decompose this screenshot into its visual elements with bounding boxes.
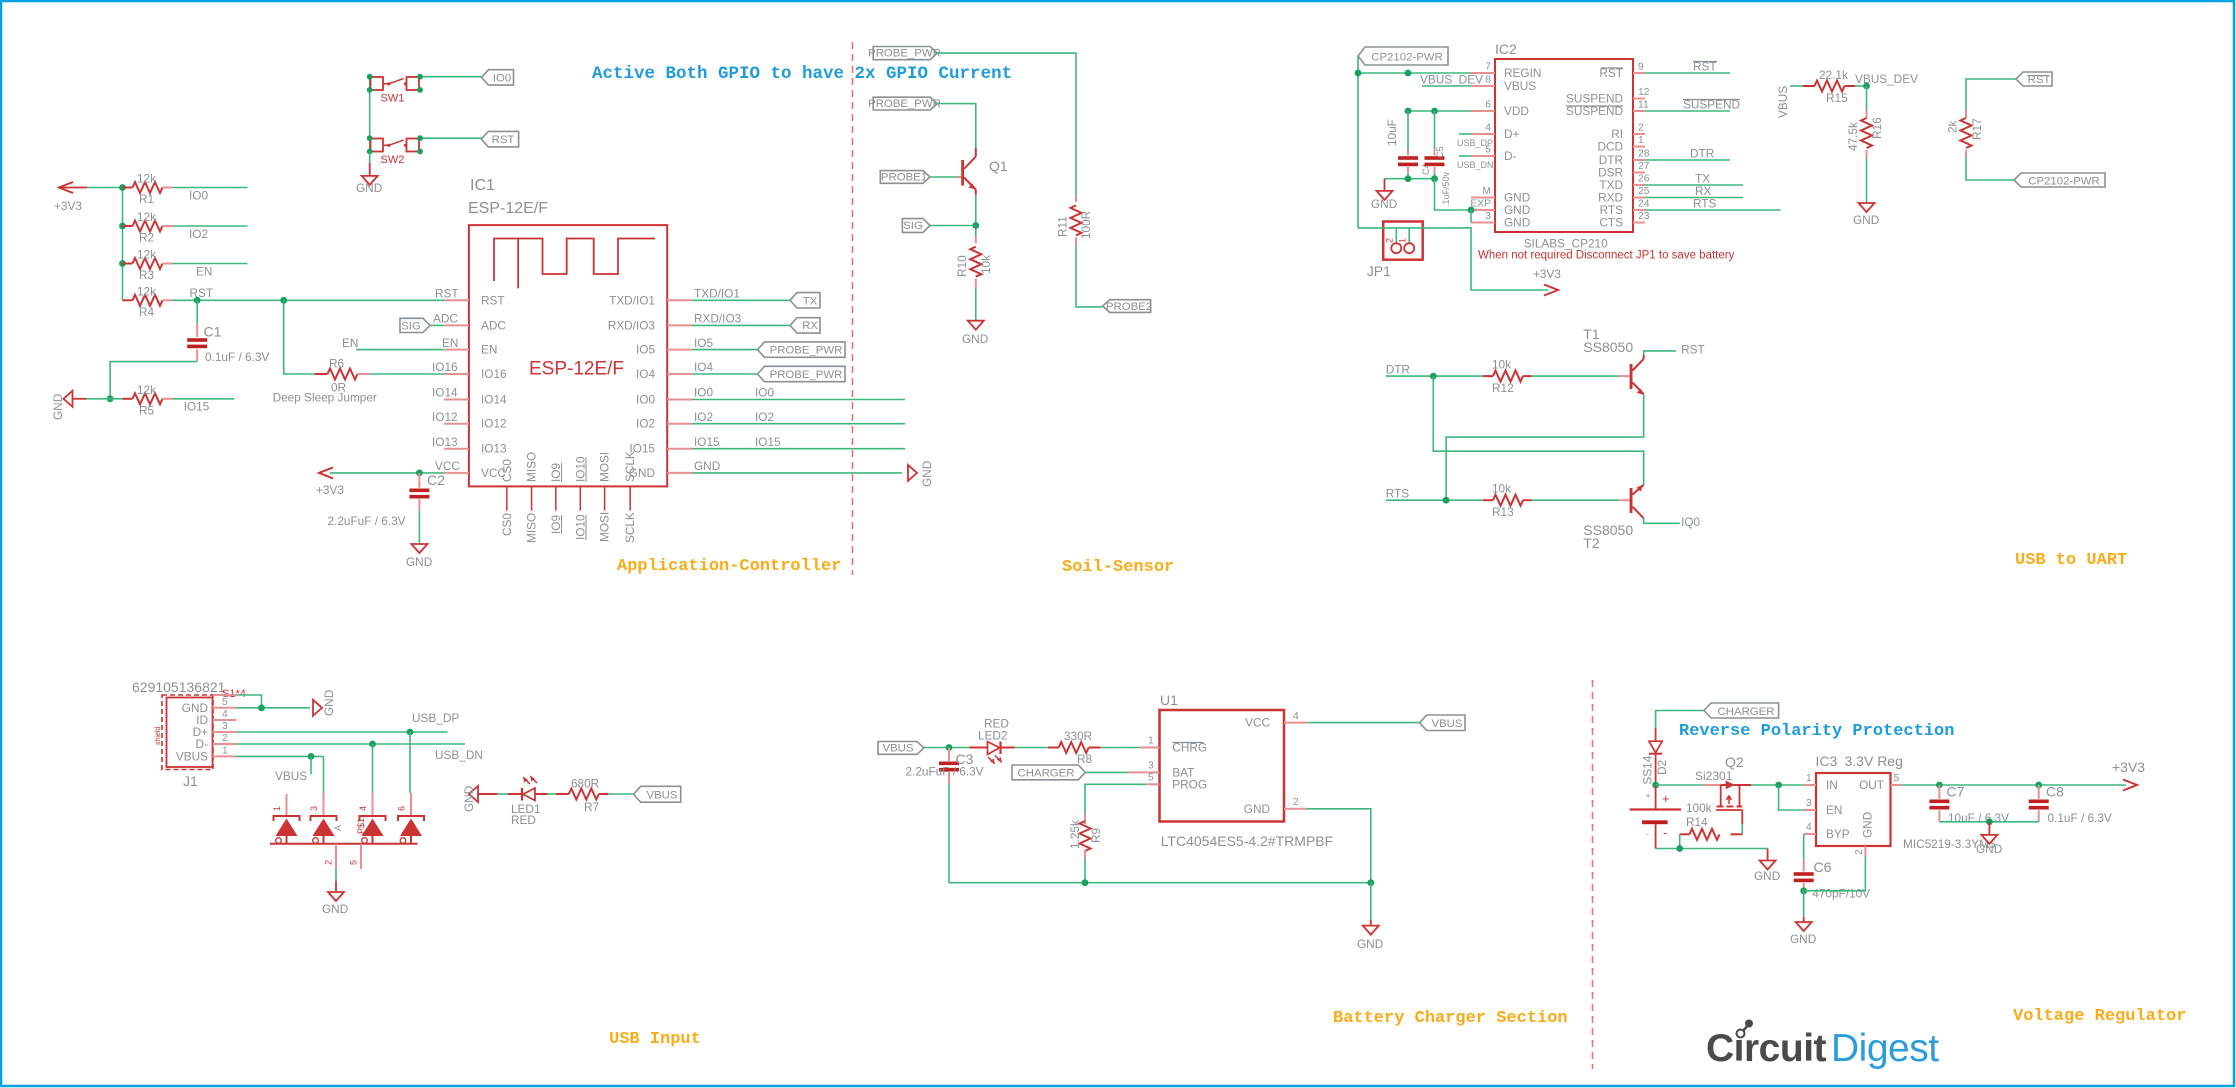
svg-text:VBUS: VBUS	[882, 743, 913, 755]
svg-text:ADC: ADC	[481, 318, 506, 332]
power +3V3 output	[2112, 759, 2145, 791]
ground below C6	[1790, 917, 1816, 946]
svg-text:PROBE_PWR: PROBE_PWR	[770, 345, 843, 357]
wire PROG pin to R9	[1085, 784, 1146, 814]
svg-text:BYP: BYP	[1826, 827, 1850, 841]
diode D1	[272, 806, 300, 844]
svg-text:Reverse Polarity Protection: Reverse Polarity Protection	[1679, 722, 1954, 741]
wire PROBE_PWR to R11	[937, 53, 1076, 195]
IC U1 LTC4054 body	[1160, 710, 1285, 822]
svg-text:+3V3: +3V3	[1533, 267, 1561, 281]
wire R14 to bottom rail	[1679, 834, 1681, 848]
wire SW1-SW2 left vertical	[369, 77, 371, 152]
wire D+ to diode 6	[409, 732, 411, 793]
resistor R10 10k	[955, 237, 993, 288]
wire C6 to GND pin2	[1804, 857, 1866, 891]
wire C5 rail to EXP	[1435, 179, 1472, 210]
svg-text:RST: RST	[435, 287, 459, 301]
svg-text:DTR: DTR	[1386, 363, 1410, 377]
pin VDD 6	[1408, 100, 1529, 119]
svg-text:C7: C7	[1947, 784, 1965, 800]
svg-text:27: 27	[1638, 161, 1650, 172]
svg-text:R17: R17	[1970, 118, 1984, 140]
svg-text:3.3V Reg: 3.3V Reg	[1845, 753, 1903, 769]
svg-text:5: 5	[349, 860, 359, 865]
pin REGIN 7	[1471, 62, 1541, 81]
svg-text:IO16: IO16	[481, 367, 507, 381]
connector JP1	[1367, 222, 1423, 280]
svg-text:VBUS: VBUS	[176, 749, 208, 763]
svg-text:SILABS_CP210: SILABS_CP210	[1524, 237, 1608, 251]
SECTION: battery charger	[878, 692, 1465, 951]
pin TXD 26	[1599, 172, 1743, 193]
svg-text:24: 24	[1638, 199, 1650, 210]
node gnd rail junction	[1986, 818, 1993, 825]
wire VBUS to LED2	[924, 747, 970, 749]
svg-text:GND: GND	[322, 690, 336, 716]
svg-text:IO0: IO0	[493, 73, 511, 85]
svg-text:R2: R2	[139, 231, 154, 245]
svg-text:RED: RED	[511, 813, 536, 827]
node D- junction	[369, 741, 376, 748]
svg-text:+: +	[1646, 791, 1651, 801]
svg-text:3: 3	[1806, 798, 1812, 809]
SECTION: soil sensor	[868, 47, 1152, 347]
wire SW2 right to RST tag	[420, 137, 481, 139]
svg-text:D2: D2	[1655, 760, 1669, 775]
svg-text:0.1uF / 6.3V: 0.1uF / 6.3V	[2048, 811, 2112, 825]
svg-text:SS8050: SS8050	[1583, 339, 1633, 355]
node C6 junction	[1800, 887, 1807, 894]
pin IN 1	[1804, 773, 1838, 792]
wire IO15 right	[692, 448, 905, 450]
pin CS0 bottom	[500, 459, 514, 536]
svg-text:When not required Disconnect J: When not required Disconnect JP1 to save…	[1478, 250, 1735, 262]
wire C6 to GND	[1803, 891, 1805, 917]
battery B1	[1630, 785, 1681, 849]
switch SW1	[367, 74, 423, 105]
svg-text:Deep Sleep Jumper: Deep Sleep Jumper	[273, 391, 377, 405]
svg-text:+3V3: +3V3	[2112, 759, 2145, 775]
svg-text:IN: IN	[1826, 778, 1838, 792]
ground right of J1	[313, 690, 336, 716]
transistor T2 SS8050	[1619, 484, 1643, 518]
wire +3V3 to bus	[87, 187, 123, 189]
wire vertical 3V3 bus	[122, 188, 124, 301]
svg-text:GND: GND	[1861, 812, 1875, 838]
wire SW1 right to IO0 tag	[420, 76, 482, 78]
node RST R6 junction	[280, 297, 287, 304]
node junction C4 column	[1405, 70, 1412, 77]
pin RXD 25	[1598, 184, 1743, 205]
svg-text:IO14: IO14	[432, 386, 458, 400]
ground left of LED1	[462, 786, 478, 812]
pin IO15 right	[629, 435, 720, 456]
svg-text:0.1uF / 6.3V: 0.1uF / 6.3V	[205, 350, 269, 364]
svg-text:10uF: 10uF	[1385, 119, 1399, 146]
node C4 bottom	[1405, 175, 1412, 182]
wire D+ row USB_DP	[237, 731, 448, 733]
SECTION: resistor ladder	[51, 172, 444, 421]
resistor R5 12k	[123, 383, 173, 418]
wire T1 emitter cross to RTS row	[1446, 394, 1644, 500]
svg-text:CHARGER: CHARGER	[1718, 706, 1775, 718]
transistor T1 SS8050	[1619, 355, 1644, 395]
pin SUSPEND 12	[1566, 87, 1650, 106]
wire R2 to IO2	[173, 225, 248, 227]
svg-text:GND: GND	[1371, 197, 1397, 211]
svg-text:2: 2	[1638, 123, 1644, 134]
wire ground rail	[949, 882, 1371, 884]
svg-text:C8: C8	[2046, 784, 2064, 800]
svg-text:IO5: IO5	[636, 343, 655, 357]
pin GND 2 bottom	[1854, 812, 1875, 857]
wire RTS row	[1386, 499, 1483, 501]
svg-text:P$1: P$1	[356, 818, 366, 834]
pin GND EXP	[1470, 199, 1530, 218]
op-amp module body IC1	[469, 225, 667, 486]
svg-text:Circuit: Circuit	[1706, 1027, 1827, 1070]
wire SW2 to GND	[369, 151, 371, 163]
pin SCLK bottom	[623, 451, 637, 543]
svg-text:R4: R4	[139, 305, 155, 319]
node VCC C2 junction	[416, 470, 423, 477]
svg-text:RX: RX	[802, 320, 818, 332]
svg-text:PROG: PROG	[1172, 777, 1207, 791]
svg-text:R7: R7	[584, 800, 599, 814]
wire OUT rail to +3V3	[1902, 784, 2126, 786]
node C3 junction	[946, 744, 953, 751]
svg-text:RST: RST	[1681, 343, 1705, 357]
svg-text:IO15: IO15	[755, 435, 781, 449]
svg-text:USB_DN: USB_DN	[1457, 160, 1494, 170]
wire CHARGER to D2	[1656, 711, 1704, 729]
svg-text:R5: R5	[139, 404, 155, 418]
resistor R14 100k	[1680, 801, 1743, 840]
ground below SW2	[356, 163, 382, 195]
svg-text:1: 1	[1398, 238, 1408, 243]
wire Q1 emitter down	[975, 195, 977, 238]
pin IO2 right	[636, 410, 713, 431]
svg-text:IO14: IO14	[481, 393, 507, 407]
wire C3 down to rail	[948, 784, 950, 883]
svg-text:2k: 2k	[1946, 120, 1960, 133]
svg-text:IC1: IC1	[470, 177, 495, 194]
wire RST row	[173, 299, 445, 301]
svg-text:28: 28	[1638, 149, 1650, 160]
svg-text:LED2: LED2	[978, 729, 1008, 743]
svg-text:USB_DN: USB_DN	[435, 748, 483, 762]
svg-text:IO13: IO13	[432, 435, 458, 449]
LED LED1	[478, 777, 548, 827]
node PROBE_PWR tag top	[868, 47, 941, 60]
pin OUT 5	[1859, 773, 1902, 792]
node VBUS tag right	[1420, 715, 1465, 731]
ground below rail	[1754, 849, 1780, 884]
svg-text:23: 23	[1638, 211, 1650, 222]
SECTION: T1 T2	[1386, 326, 1705, 551]
ground below diode array	[322, 892, 348, 916]
pin ID 4	[196, 709, 236, 727]
capacitor C1	[187, 323, 269, 364]
svg-text:VCC: VCC	[435, 459, 460, 473]
svg-text:C2: C2	[427, 472, 445, 488]
svg-text:TXD/IO1: TXD/IO1	[609, 293, 655, 307]
wire VCC row	[330, 472, 444, 474]
svg-text:GND: GND	[51, 394, 65, 420]
svg-text:IO9: IO9	[549, 515, 563, 534]
wire R5 to IO15	[173, 398, 235, 400]
svg-text:PROBE2: PROBE2	[1106, 301, 1152, 313]
svg-text:PROBE_PWR: PROBE_PWR	[770, 369, 843, 381]
svg-text:+3V3: +3V3	[316, 483, 344, 497]
wire R13 to T2 base	[1532, 499, 1620, 501]
node CP2102-PWR tag	[1358, 47, 1448, 65]
wire GND to R5	[87, 398, 123, 400]
svg-text:CHARGER: CHARGER	[1018, 767, 1075, 779]
svg-text:4: 4	[222, 709, 228, 720]
node EXP junction	[1468, 207, 1475, 214]
pin GND 2	[1244, 797, 1307, 816]
node RTS junction	[1443, 497, 1450, 504]
svg-text:R6: R6	[329, 357, 345, 371]
svg-text:C6: C6	[1814, 859, 1832, 875]
node D+ junction	[407, 729, 414, 736]
pin MOSI bottom	[598, 452, 612, 542]
svg-text:VCC: VCC	[1245, 716, 1270, 730]
pin VBUS 1	[176, 745, 237, 763]
svg-text:IO12: IO12	[481, 417, 507, 431]
wire R16 to GND	[1866, 158, 1868, 203]
node PROBE2 tag	[1103, 300, 1152, 314]
diode array common bus	[270, 843, 418, 845]
resistor R12 10k	[1483, 358, 1532, 396]
wire LED2 to R8	[1015, 747, 1049, 749]
pin BYP 4	[1804, 822, 1850, 841]
svg-text:3: 3	[1148, 760, 1154, 771]
svg-text:2: 2	[1385, 238, 1395, 243]
pin GND right	[629, 459, 720, 480]
svg-text:SCLK: SCLK	[623, 451, 637, 482]
svg-text:8: 8	[1485, 75, 1491, 86]
node rail junction	[1676, 845, 1683, 852]
svg-text:26: 26	[1638, 174, 1650, 185]
pin DTR 28	[1599, 147, 1730, 168]
svg-text:GND: GND	[462, 786, 476, 812]
svg-text:.1uF/50v: .1uF/50v	[1441, 171, 1451, 207]
svg-text:CS0: CS0	[500, 513, 514, 536]
svg-text:22.1k: 22.1k	[1819, 68, 1848, 82]
svg-text:IO0: IO0	[694, 386, 713, 400]
node PROBE_PWR tag second	[868, 97, 941, 110]
pin VCC 4	[1245, 711, 1307, 730]
svg-text:IO13: IO13	[481, 442, 507, 456]
node C7 junction	[1936, 782, 1943, 789]
node VDD junction C5	[1431, 108, 1438, 115]
pin GND 5	[182, 697, 237, 715]
svg-text:4: 4	[1293, 711, 1299, 722]
svg-text:RST: RST	[481, 293, 505, 307]
pin SUSPEND 11	[1566, 98, 1740, 119]
node SIG tag at ADC	[400, 318, 444, 332]
svg-text:R9: R9	[1089, 828, 1103, 843]
svg-text:shield: shield	[155, 727, 162, 745]
svg-text:GND: GND	[322, 902, 348, 916]
svg-text:D-: D-	[1504, 149, 1517, 163]
svg-text:J1: J1	[183, 773, 198, 789]
svg-text:JP1: JP1	[1367, 263, 1391, 279]
pin RST 9 right	[1599, 60, 1730, 81]
svg-text:IO15: IO15	[184, 400, 210, 414]
diode array pin 1 stub	[286, 794, 288, 815]
node C5 bottom	[1431, 175, 1438, 182]
capacitor C7 10uF	[1929, 784, 2009, 826]
svg-text:680R: 680R	[571, 777, 599, 791]
node CHARGER tag	[1012, 765, 1085, 780]
svg-text:R16: R16	[1870, 117, 1884, 139]
resistor R17 2k	[1946, 110, 1985, 158]
wire EXP to pin3	[1470, 210, 1472, 223]
svg-text:R11: R11	[1056, 216, 1070, 237]
svg-text:GND: GND	[1504, 216, 1530, 230]
node SIG tag	[902, 219, 930, 233]
svg-text:IC2: IC2	[1495, 41, 1517, 57]
svg-text:Q2: Q2	[1725, 754, 1744, 770]
svg-text:330R: 330R	[1064, 729, 1092, 743]
svg-text:11: 11	[1638, 100, 1649, 111]
svg-text:+: +	[1662, 791, 1670, 806]
svg-text:RST: RST	[492, 134, 515, 146]
pin D+ 4	[1457, 123, 1520, 149]
svg-text:CP2102-PWR: CP2102-PWR	[2028, 175, 2100, 187]
node GND5 junction	[258, 704, 265, 711]
wire T1 collector to RST	[1644, 351, 1676, 355]
node GND row junction	[107, 395, 114, 402]
node RST C1 junction	[194, 297, 201, 304]
svg-text:ESP-12E/F: ESP-12E/F	[468, 200, 548, 217]
svg-text:12k: 12k	[137, 172, 156, 186]
SECTION: divider resistors	[1776, 68, 2105, 227]
svg-text:R14: R14	[1686, 815, 1708, 829]
resistor R11 100R	[1056, 195, 1094, 246]
svg-text:GND: GND	[694, 459, 720, 473]
SECTION: ESP-12 IC1	[273, 177, 934, 569]
svg-text:SW1: SW1	[381, 93, 405, 105]
wire LED1 to R7	[548, 793, 556, 795]
wire caps bottom rail	[1385, 178, 1435, 180]
svg-text:Active Both GPIO to have 2x GP: Active Both GPIO to have 2x GPIO Current	[592, 64, 1012, 84]
svg-text:GND: GND	[1754, 869, 1780, 883]
svg-text:Battery Charger Section: Battery Charger Section	[1333, 1009, 1568, 1028]
svg-text:DCD: DCD	[1597, 140, 1623, 154]
node VBUS_DEV junction	[1863, 83, 1870, 90]
pin RXD/IO3 right	[608, 312, 742, 333]
wire REGIN row	[1358, 72, 1471, 74]
net label VBUS stub	[275, 756, 311, 783]
svg-text:M: M	[1482, 186, 1491, 197]
resistor R16 47.5k	[1846, 86, 1884, 158]
wire rail to Q2	[1656, 784, 1704, 786]
wire SIG to junction	[930, 225, 976, 227]
logo CircuitDigest	[1706, 1020, 1939, 1071]
svg-text:ADC: ADC	[433, 312, 458, 326]
node CHARGER tag	[1704, 703, 1779, 718]
wire R15 to junction	[1855, 85, 1867, 87]
pin CTS 23	[1599, 211, 1649, 230]
ground below charger	[1357, 920, 1383, 951]
svg-text:1: 1	[1638, 135, 1644, 146]
svg-text:VBUS_DEV: VBUS_DEV	[1855, 72, 1918, 86]
resistor R15 22.1k	[1803, 68, 1855, 105]
wire Q2 gate to R14	[1741, 824, 1743, 834]
svg-text:USB Input: USB Input	[609, 1030, 701, 1049]
svg-text:SIG: SIG	[401, 320, 421, 332]
wire JP1 row to +3V3	[1358, 228, 1548, 290]
resistor R4 12k	[123, 284, 173, 319]
resistor R2 12k	[123, 210, 173, 245]
svg-text:SCLK: SCLK	[623, 512, 637, 543]
svg-text:MISO: MISO	[525, 452, 539, 482]
svg-text:10k: 10k	[1492, 358, 1511, 372]
svg-text:4: 4	[1806, 822, 1812, 833]
pin IO13 left	[432, 435, 507, 456]
svg-text:T2: T2	[1583, 535, 1600, 551]
svg-text:IO0: IO0	[755, 386, 774, 400]
pin IO0 right	[636, 386, 713, 407]
node VDD junction C4	[1405, 108, 1412, 115]
wire VBUS row	[237, 755, 324, 757]
ground right of IC1	[908, 461, 934, 487]
wire Q2 drain lead	[1740, 784, 1752, 786]
SECTION: IC2 CP2102	[1355, 41, 1781, 296]
wire R17 to CP2102-PWR tag	[1966, 158, 2014, 180]
node RST tag right	[2016, 72, 2052, 86]
svg-text:IO0: IO0	[636, 393, 655, 407]
resistor R9 1.25k	[1068, 814, 1103, 858]
wire R3 to EN	[173, 263, 248, 265]
svg-text:R12: R12	[1492, 381, 1514, 395]
svg-text:12k: 12k	[137, 210, 156, 224]
node VBUS tag	[634, 786, 681, 802]
svg-text:REGIN: REGIN	[1504, 66, 1541, 80]
wire C7 C8 gnd rail	[1939, 821, 2038, 823]
wire Q2 to IC3 IN	[1751, 784, 1804, 786]
svg-text:DTR: DTR	[1690, 147, 1714, 161]
svg-text:LTC4054ES5-4.2#TRMPBF: LTC4054ES5-4.2#TRMPBF	[1161, 833, 1333, 849]
svg-text:VBUS: VBUS	[646, 789, 677, 801]
SECTION: voltage regulator	[1630, 703, 2146, 946]
capacitor C8 0.1uF	[2029, 784, 2112, 826]
wire IO0 right	[692, 399, 905, 401]
pin GND M	[1471, 186, 1530, 205]
node PROBE1 tag	[880, 171, 930, 184]
svg-text:2.2uFuF / 6.3V: 2.2uFuF / 6.3V	[328, 514, 406, 528]
IC IC3 MIC5219 body	[1816, 773, 1891, 846]
pin DCD 1	[1597, 135, 1645, 154]
pin IO4 right	[636, 360, 713, 381]
capacitor C4 10uF	[1385, 111, 1431, 179]
svg-text:RTS: RTS	[1693, 197, 1717, 211]
pin VBUS 8	[1420, 73, 1536, 94]
capacitor C3	[906, 748, 984, 785]
svg-text:R13: R13	[1492, 505, 1514, 519]
pin VCC left	[435, 459, 506, 480]
svg-text:Si2301: Si2301	[1695, 769, 1733, 783]
pin D+ 3	[193, 721, 237, 739]
svg-text:629105136821: 629105136821	[132, 679, 226, 695]
svg-text:RXD/IO3: RXD/IO3	[608, 318, 656, 332]
pin BAT 3	[1128, 760, 1194, 779]
